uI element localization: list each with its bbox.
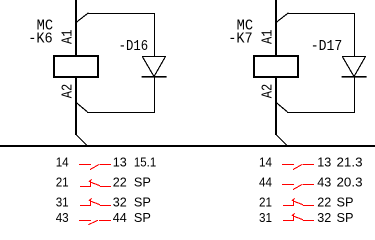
wire: K6 branch right vertical to diode anode — [154, 13, 155, 57]
wire: K7 branch right vertical to diode anode — [354, 13, 355, 57]
wire: K6 diagonal to bus bar — [76, 135, 88, 147]
svg-text:SP: SP — [134, 210, 151, 225]
contact 31-32 of K7 (NC) — [283, 213, 314, 221]
diode D16 — [142, 56, 167, 78]
svg-text:31: 31 — [259, 210, 272, 225]
wire: K6 top branch horizontal — [88, 13, 155, 14]
contact 13-14 of K6 (NO) — [79, 164, 111, 170]
svg-text:SP: SP — [337, 210, 354, 225]
svg-text:22: 22 — [317, 195, 331, 210]
wire: K7 top branch horizontal — [288, 13, 355, 14]
svg-text:14: 14 — [56, 155, 69, 170]
svg-text:21.3: 21.3 — [337, 155, 363, 170]
contact 13-14 of K7 (NO) — [282, 164, 314, 170]
diode D17 — [342, 56, 367, 78]
contact 31-32 of K6 (NC) — [80, 198, 111, 206]
svg-text:SP: SP — [134, 175, 151, 190]
svg-text:-K7: -K7 — [228, 30, 253, 47]
svg-text:SP: SP — [134, 195, 151, 210]
wire: K6 main vertical top segment — [75, 0, 77, 56]
svg-text:A2: A2 — [60, 84, 77, 99]
wire: K6 bottom branch diagonal stub — [76, 102, 88, 112]
wire: K7 bottom branch horizontal — [287, 112, 355, 113]
svg-text:44: 44 — [113, 210, 127, 225]
svg-text:-K6: -K6 — [28, 30, 53, 47]
svg-text:15.1: 15.1 — [134, 155, 156, 170]
wire: D17 cathode vertical — [354, 77, 355, 113]
svg-text:43: 43 — [56, 210, 69, 225]
wire: K6 main vertical bottom segment — [75, 76, 77, 135]
contact 21-22 of K6 (NC) — [80, 179, 111, 187]
svg-text:14: 14 — [259, 155, 272, 170]
svg-text:20.3: 20.3 — [337, 175, 363, 190]
svg-text:13: 13 — [317, 155, 331, 170]
svg-text:A2: A2 — [260, 84, 277, 99]
bus bar divider line — [0, 145, 375, 147]
contact 43-44 of K6 (NO) — [79, 220, 111, 225]
contact 43-44 of K7 (NO) — [282, 184, 314, 190]
wire: K7 diagonal to bus bar — [276, 135, 288, 147]
svg-text:32: 32 — [113, 195, 127, 210]
svg-text:-D17: -D17 — [311, 38, 343, 55]
svg-text:A1: A1 — [260, 30, 277, 45]
svg-text:32: 32 — [317, 210, 331, 225]
svg-text:13: 13 — [113, 155, 127, 170]
svg-text:43: 43 — [317, 175, 331, 190]
contact 21-22 of K7 (NC) — [283, 198, 314, 206]
wire: D16 cathode vertical — [154, 77, 155, 113]
relay K6 circuit — [28, 0, 166, 146]
wire: K6 top branch diagonal stub — [76, 13, 89, 23]
relay coil K7 — [253, 55, 299, 78]
svg-text:31: 31 — [56, 195, 69, 210]
relay coil K6 — [53, 55, 99, 78]
wire: K7 bottom branch diagonal stub — [276, 102, 288, 112]
svg-text:22: 22 — [113, 175, 127, 190]
contact cross-reference table K6 — [56, 155, 157, 226]
svg-text:A1: A1 — [60, 30, 77, 45]
wire: K7 main vertical bottom segment — [275, 76, 277, 135]
contact cross-reference table K7 — [259, 155, 363, 226]
wire: K7 main vertical top segment — [275, 0, 277, 56]
relay K7 circuit — [228, 0, 366, 146]
svg-text:21: 21 — [259, 195, 272, 210]
svg-text:SP: SP — [337, 195, 354, 210]
svg-text:-D16: -D16 — [119, 38, 149, 55]
svg-text:44: 44 — [259, 175, 272, 190]
wire: K6 bottom branch horizontal — [87, 112, 155, 113]
svg-text:21: 21 — [56, 175, 69, 190]
wire: K7 top branch diagonal stub — [276, 13, 289, 23]
